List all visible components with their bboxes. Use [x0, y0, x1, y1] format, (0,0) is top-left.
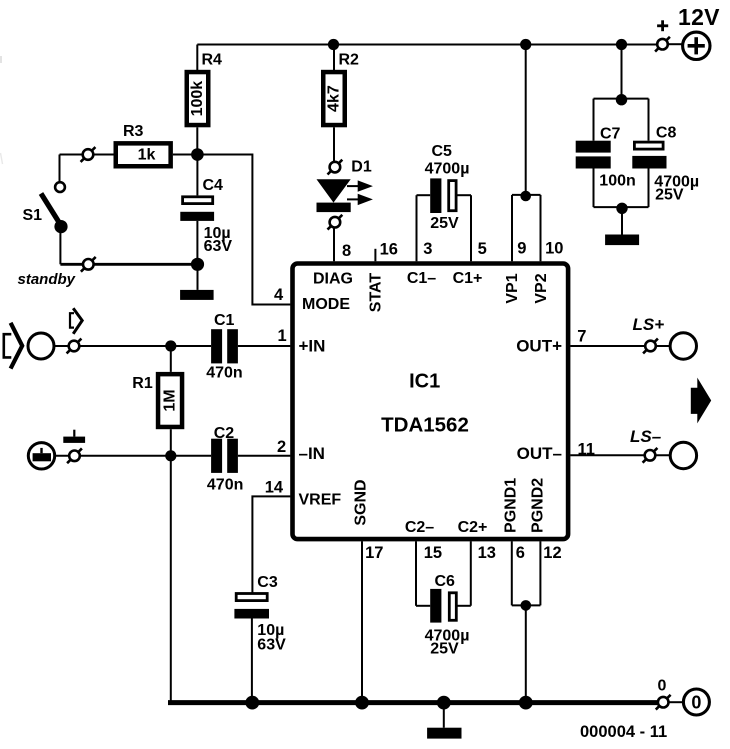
svg-text:25V: 25V	[430, 215, 459, 232]
svg-text:C7: C7	[600, 126, 621, 143]
junction node +IN/R1	[165, 340, 176, 351]
svg-text:0: 0	[691, 692, 701, 712]
junction node VP rail	[520, 39, 531, 50]
svg-text:VP2: VP2	[533, 273, 550, 303]
ground mini above terminal	[63, 430, 85, 443]
svg-text:C1+: C1+	[453, 270, 483, 287]
svg-text:4: 4	[274, 286, 284, 304]
page edge artifact 2	[1, 153, 3, 164]
svg-text:R2: R2	[339, 52, 360, 69]
op-amp IC1 TDA1562 body	[293, 264, 569, 540]
terminal D1 anode	[328, 160, 343, 175]
svg-text:standby: standby	[18, 271, 76, 288]
svg-text:63V: 63V	[257, 637, 286, 654]
wire pin 15 down	[415, 541, 417, 606]
terminal input signal	[67, 339, 82, 354]
svg-text:STAT: STAT	[367, 273, 384, 313]
svg-text:–IN: –IN	[299, 444, 325, 463]
capacitor C4	[180, 155, 232, 265]
SECTION: top rail	[187, 4, 720, 261]
wire pin 5 up	[470, 195, 472, 261]
wire R3 right	[173, 154, 198, 156]
wire jack to C1	[55, 345, 212, 347]
svg-text:PGND2: PGND2	[530, 478, 547, 533]
node + mark	[657, 20, 668, 31]
svg-text:14: 14	[265, 478, 284, 496]
svg-text:SGND: SGND	[352, 479, 369, 525]
wire C7C8 branch down	[621, 45, 623, 100]
resistor R2	[323, 52, 359, 125]
wire -IN node to ground rail	[170, 456, 172, 703]
resistor R1	[132, 346, 182, 456]
svg-text:2: 2	[277, 438, 286, 456]
terminal input ground	[67, 448, 82, 463]
wire standby to C4 node	[60, 263, 197, 266]
capacitor C1	[206, 312, 242, 382]
svg-text:C2–: C2–	[405, 519, 434, 536]
wire pin 17 SGND down	[361, 541, 363, 702]
wire C2 to pin 2	[238, 455, 291, 457]
svg-text:000004 - 11: 000004 - 11	[580, 723, 667, 741]
wire VP branch	[525, 45, 527, 196]
svg-text:1M: 1M	[162, 389, 179, 411]
terminal R3 input	[81, 147, 96, 162]
terminal +12V	[655, 37, 670, 52]
resistor R3	[116, 123, 171, 166]
svg-text:C4: C4	[203, 177, 224, 194]
wire C1 to pin 1	[238, 345, 291, 347]
capacitor C2	[207, 425, 243, 493]
terminal D1 cathode	[328, 215, 343, 230]
node output arrow	[691, 378, 711, 424]
junction node C7C8 rail	[616, 39, 627, 50]
svg-text:C1–: C1–	[407, 270, 436, 287]
node small input arrow	[70, 308, 82, 334]
junction node rail PGND	[519, 696, 533, 710]
svg-text:C8: C8	[656, 124, 677, 141]
svg-text:OUT–: OUT–	[517, 444, 562, 463]
svg-text:17: 17	[365, 544, 383, 562]
capacitor C5	[417, 143, 472, 232]
svg-text:VREF: VREF	[299, 492, 342, 509]
wire R2 to D1	[333, 127, 335, 161]
switch S1	[23, 182, 68, 233]
wire node to MODE	[197, 155, 290, 305]
junction node rail SGND	[355, 696, 369, 710]
node input jack sleeve	[28, 443, 54, 469]
node audio input arrow	[4, 323, 22, 369]
junction node rail C3	[245, 696, 259, 710]
svg-text:13: 13	[478, 544, 496, 562]
node input jack tip	[28, 333, 54, 359]
wire sleeve to C2	[56, 455, 212, 457]
junction node -IN/R1	[165, 450, 176, 461]
svg-text:LS–: LS–	[630, 427, 662, 446]
resistor R4	[187, 52, 222, 125]
svg-text:25V: 25V	[430, 640, 459, 657]
SECTION: bottom	[168, 541, 709, 741]
junction node VP	[520, 191, 531, 202]
capacitor C6	[416, 573, 471, 657]
wire OUT+ to LS+	[570, 345, 669, 347]
svg-text:12V: 12V	[678, 4, 720, 30]
wire VP1 up	[511, 195, 513, 261]
svg-text:8: 8	[342, 242, 351, 260]
node 0V connector	[683, 689, 709, 715]
wire C7C8 bottom bus	[594, 206, 649, 208]
svg-text:S1: S1	[23, 207, 43, 224]
svg-text:1: 1	[278, 327, 287, 345]
svg-text:0: 0	[658, 678, 667, 695]
svg-text:15: 15	[424, 544, 442, 562]
svg-text:1k: 1k	[138, 146, 156, 163]
wire PGND bus bar	[512, 604, 541, 606]
svg-text:R4: R4	[202, 52, 223, 69]
svg-text:C3: C3	[257, 574, 278, 591]
terminal standby	[81, 257, 96, 272]
svg-text:63V: 63V	[204, 238, 233, 255]
svg-text:12: 12	[543, 544, 561, 562]
svg-text:DIAG: DIAG	[313, 270, 353, 287]
svg-text:7: 7	[577, 327, 586, 345]
terminal LS+	[643, 339, 658, 354]
wire D1 to pin 8	[333, 228, 335, 261]
wire pin 3 up	[416, 195, 418, 261]
wire S1 bottom	[59, 227, 61, 265]
svg-text:VP1: VP1	[504, 273, 521, 303]
SECTION: standby	[18, 123, 291, 305]
svg-text:10: 10	[545, 240, 563, 258]
capacitor C3	[234, 574, 286, 703]
wire R3 left	[60, 154, 114, 156]
svg-text:+IN: +IN	[299, 337, 326, 356]
wire VREF to C3	[252, 496, 290, 593]
SECTION: inputs	[4, 308, 291, 702]
svg-text:9: 9	[517, 240, 526, 258]
wire R2 top lead	[333, 45, 335, 71]
ground C7C8	[605, 208, 639, 245]
svg-text:4k7: 4k7	[326, 85, 343, 112]
wire R4 top lead	[196, 45, 198, 71]
wire VP2 up	[540, 195, 542, 261]
svg-text:IC1: IC1	[409, 370, 440, 392]
wire +12V top rail	[197, 44, 657, 46]
svg-text:OUT+: OUT+	[516, 337, 562, 356]
wire terminal to 12V connector	[668, 43, 682, 45]
wire pin 13 down	[470, 541, 472, 606]
wire pin 6 down	[511, 541, 513, 605]
svg-text:100n: 100n	[599, 172, 635, 189]
SECTION: caps-top	[417, 45, 700, 262]
capacitor C7	[576, 99, 636, 208]
junction node R2 top	[328, 39, 339, 50]
svg-text:6: 6	[516, 544, 525, 562]
SECTION: ic	[265, 240, 595, 563]
wire pin 12 down	[539, 541, 541, 605]
node LS+ connector	[670, 333, 696, 359]
svg-text:4700µ: 4700µ	[425, 161, 470, 178]
node 12V supply connector	[678, 4, 720, 59]
page edge artifact 1	[0, 56, 2, 63]
svg-text:100k: 100k	[189, 81, 206, 117]
junction node C7C8 top	[616, 94, 627, 105]
svg-text:470n: 470n	[207, 476, 243, 493]
svg-text:TDA1562: TDA1562	[381, 414, 469, 437]
wire VP bus bar	[512, 194, 541, 196]
junction node rail ground	[437, 696, 451, 710]
wire ground rail	[168, 700, 657, 705]
junction node R3/R4/C4	[191, 148, 204, 161]
wire OUT- to LS-	[570, 454, 669, 456]
SECTION: outputs	[570, 315, 711, 469]
pin 16 stub	[374, 249, 376, 261]
svg-text:LS+: LS+	[633, 315, 665, 334]
svg-text:470n: 470n	[206, 365, 242, 382]
svg-text:R1: R1	[132, 375, 153, 392]
junction node PGND	[521, 600, 532, 611]
ground main	[427, 703, 461, 739]
wire C7C8 top bus	[594, 98, 649, 100]
svg-text:C1: C1	[214, 312, 235, 329]
wire terminal to 0 connector	[669, 701, 683, 703]
svg-text:16: 16	[380, 241, 398, 259]
svg-text:25V: 25V	[655, 186, 684, 203]
ground C4	[180, 264, 214, 300]
svg-text:MODE: MODE	[302, 296, 350, 313]
svg-text:C2+: C2+	[458, 519, 488, 536]
svg-text:C6: C6	[435, 573, 456, 590]
capacitor C8	[632, 99, 699, 208]
terminal 0V	[656, 695, 671, 710]
svg-text:D1: D1	[351, 158, 372, 175]
wire PGND to rail	[525, 605, 527, 702]
svg-text:5: 5	[478, 240, 487, 258]
node LS- connector	[670, 442, 696, 468]
LED D1	[317, 158, 373, 212]
junction node C4 bottom	[191, 258, 204, 271]
terminal LS-	[643, 448, 658, 463]
junction node C7C8 bottom	[616, 203, 627, 214]
wire S1 top	[59, 155, 61, 183]
svg-text:R3: R3	[123, 123, 144, 140]
svg-text:C5: C5	[432, 143, 453, 160]
svg-text:3: 3	[423, 240, 432, 258]
svg-text:PGND1: PGND1	[502, 478, 519, 533]
wire R4 bottom lead	[196, 127, 198, 154]
